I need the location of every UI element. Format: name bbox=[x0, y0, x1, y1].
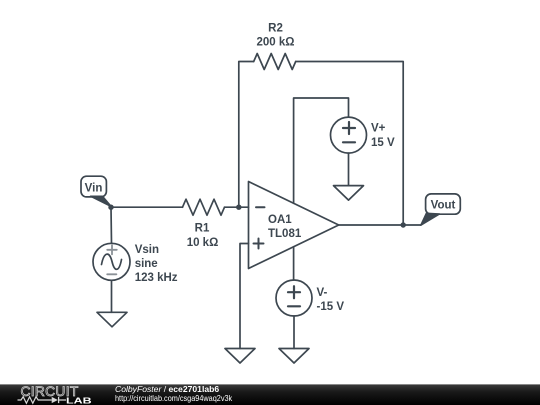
svg-text:R2: R2 bbox=[268, 23, 283, 35]
svg-text:10 kΩ: 10 kΩ bbox=[187, 237, 219, 249]
net flag Vout tail bbox=[421, 213, 440, 225]
ground under V- bbox=[279, 349, 309, 364]
resistor R2 bbox=[254, 54, 296, 70]
wire: non-inverting input to ground bbox=[240, 244, 249, 349]
svg-text:Vin: Vin bbox=[85, 182, 103, 194]
voltage source V- circle bbox=[276, 280, 312, 316]
op-amp OA1 inverting input minus symbol bbox=[256, 206, 265, 208]
wire: R1 right lead to op-amp inverting input bbox=[225, 206, 249, 208]
net flag Vin box bbox=[81, 176, 106, 197]
footer logo diode symbol bbox=[52, 397, 58, 403]
svg-text:http://circuitlab.com/csga94wa: http://circuitlab.com/csga94waq2v3k bbox=[115, 393, 232, 403]
op-amp OA1 non-inverting input plus symbol bbox=[254, 239, 264, 249]
junction dot at Vin node bbox=[108, 205, 113, 210]
ground under non-inverting input bbox=[225, 349, 255, 364]
voltage source V- plus mark bbox=[288, 286, 300, 298]
svg-text:OA1: OA1 bbox=[268, 214, 292, 226]
svg-text:TL081: TL081 bbox=[268, 228, 302, 240]
footer bar bbox=[0, 384, 540, 405]
resistor R1 bbox=[183, 199, 225, 215]
voltage source Vsin circle bbox=[93, 243, 130, 280]
voltage source V- minus mark bbox=[288, 305, 300, 307]
wire: op-amp V- pin down to V- source bbox=[293, 247, 295, 280]
ground under Vsin bbox=[97, 312, 127, 327]
wire: op-amp output to Vout flag bbox=[339, 224, 421, 226]
node A: inverting input junction dot bbox=[236, 205, 241, 210]
svg-text:R1: R1 bbox=[195, 223, 210, 235]
svg-text:Vout: Vout bbox=[431, 200, 456, 212]
svg-text:-15 V: -15 V bbox=[317, 301, 345, 313]
wire: op-amp V+ pin up and over to V+ source bbox=[294, 98, 349, 203]
op-amp OA1 triangle bbox=[249, 182, 339, 269]
net flag Vin tail bbox=[91, 196, 112, 206]
wire: Vin node down to Vsin source bbox=[110, 207, 113, 243]
svg-text:V+: V+ bbox=[371, 123, 386, 135]
footer logo resistor squiggle bbox=[18, 397, 52, 404]
svg-text:15 V: 15 V bbox=[371, 137, 395, 149]
svg-text:Vsin: Vsin bbox=[135, 244, 159, 256]
svg-text:200 kΩ: 200 kΩ bbox=[257, 37, 295, 49]
voltage source Vsin plus mark (gray) bbox=[107, 245, 117, 254]
net flag Vout box bbox=[426, 194, 461, 214]
ground under V+ bbox=[334, 186, 364, 201]
wire: V+ source bottom to ground bbox=[348, 153, 350, 186]
wire: V- source bottom to ground bbox=[293, 316, 295, 349]
wire: R2 left leg (node A up to feedback row) bbox=[239, 62, 254, 208]
svg-text:sine: sine bbox=[135, 258, 158, 270]
wire: Vsin bottom to ground bbox=[111, 280, 113, 312]
node B: output junction dot bbox=[401, 222, 406, 227]
wire: R2 right lead across and down to output node bbox=[296, 62, 404, 226]
svg-text:123 kHz: 123 kHz bbox=[135, 272, 178, 284]
wire: Vin node to R1 left lead bbox=[111, 206, 183, 208]
voltage source V+ minus mark bbox=[343, 141, 355, 143]
voltage source V+ circle bbox=[331, 117, 367, 153]
svg-text:V-: V- bbox=[317, 287, 328, 299]
voltage source V+ plus mark bbox=[343, 122, 355, 134]
voltage source Vsin sine squiggle bbox=[102, 254, 122, 269]
voltage source Vsin minus mark (gray) bbox=[107, 273, 116, 275]
svg-text:LAB: LAB bbox=[66, 396, 92, 405]
